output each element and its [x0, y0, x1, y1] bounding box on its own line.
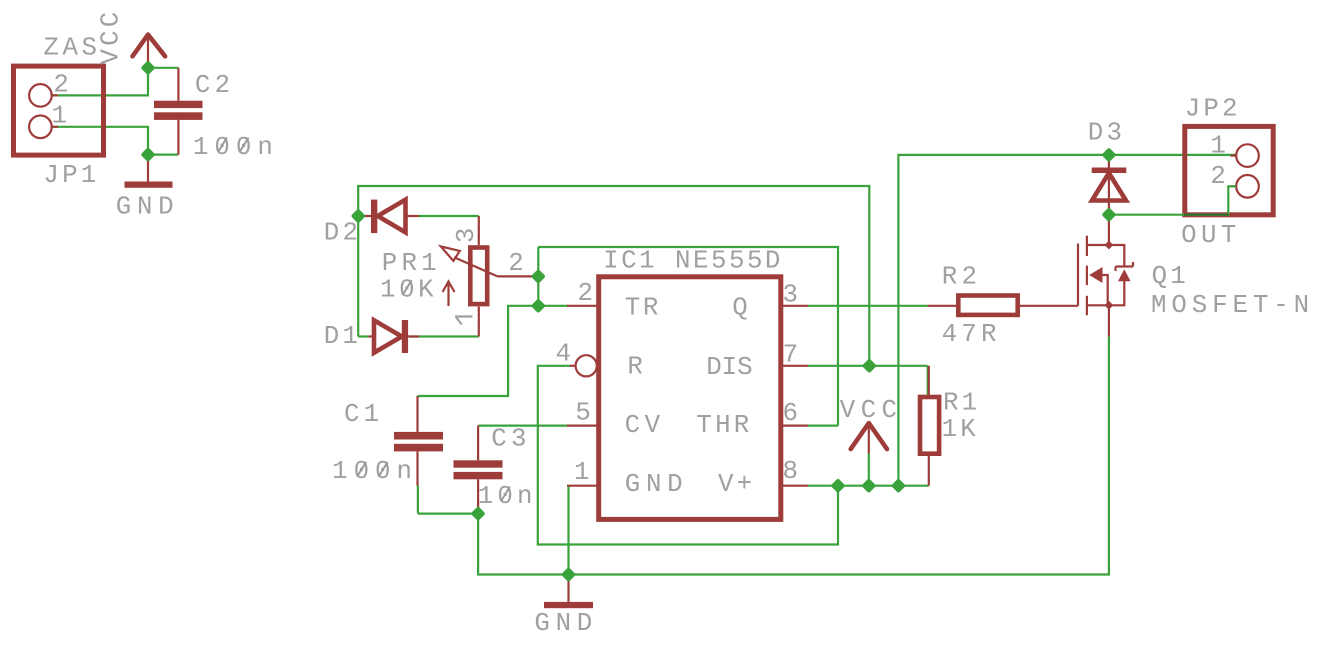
svg-text:DIS: DIS	[706, 353, 752, 382]
svg-text:6: 6	[783, 399, 802, 428]
svg-text:1: 1	[574, 458, 593, 487]
svg-text:THR: THR	[696, 411, 752, 440]
svg-text:GND: GND	[625, 470, 689, 499]
svg-text:47R: 47R	[942, 320, 1001, 349]
svg-text:VCC: VCC	[97, 9, 126, 65]
svg-text:R2: R2	[942, 263, 981, 292]
svg-text:TR: TR	[625, 294, 661, 323]
svg-text:7: 7	[783, 341, 802, 370]
svg-text:5: 5	[575, 399, 594, 428]
svg-text:2: 2	[1210, 162, 1229, 191]
svg-text:GND: GND	[116, 193, 180, 222]
svg-text:100n: 100n	[193, 133, 279, 162]
svg-text:VCC: VCC	[840, 396, 903, 425]
svg-text:10K: 10K	[380, 276, 437, 305]
svg-text:IC1 NE555D: IC1 NE555D	[603, 247, 783, 276]
svg-text:V+: V+	[718, 470, 755, 499]
svg-text:D2: D2	[324, 219, 361, 248]
svg-text:R1: R1	[943, 389, 980, 418]
svg-text:ZAS: ZAS	[43, 34, 100, 63]
svg-text:Q1: Q1	[1152, 262, 1189, 291]
svg-text:8: 8	[783, 457, 802, 486]
svg-text:Q: Q	[732, 293, 751, 322]
svg-text:10n: 10n	[478, 482, 537, 511]
svg-text:JP1: JP1	[43, 161, 99, 190]
svg-text:C1: C1	[344, 400, 383, 429]
svg-text:4: 4	[556, 339, 575, 368]
svg-text:1K: 1K	[942, 415, 979, 444]
svg-text:2: 2	[578, 279, 597, 308]
svg-text:D1: D1	[324, 322, 361, 351]
svg-text:MOSFET-N: MOSFET-N	[1151, 291, 1314, 320]
svg-text:JP2: JP2	[1185, 94, 1241, 123]
svg-text:OUT: OUT	[1181, 221, 1241, 250]
svg-text:3: 3	[452, 224, 481, 243]
svg-text:1: 1	[1210, 131, 1229, 160]
svg-text:GND: GND	[534, 609, 598, 638]
svg-text:1: 1	[52, 101, 71, 130]
svg-text:C3: C3	[491, 425, 530, 454]
svg-text:100n: 100n	[332, 457, 418, 486]
svg-text:R: R	[627, 352, 646, 381]
svg-text:PR1: PR1	[382, 249, 441, 278]
svg-text:2: 2	[508, 249, 527, 278]
svg-text:D3: D3	[1088, 119, 1125, 148]
svg-text:CV: CV	[625, 411, 665, 440]
svg-text:2: 2	[53, 71, 72, 100]
svg-text:C2: C2	[195, 71, 234, 100]
svg-text:3: 3	[783, 281, 802, 310]
